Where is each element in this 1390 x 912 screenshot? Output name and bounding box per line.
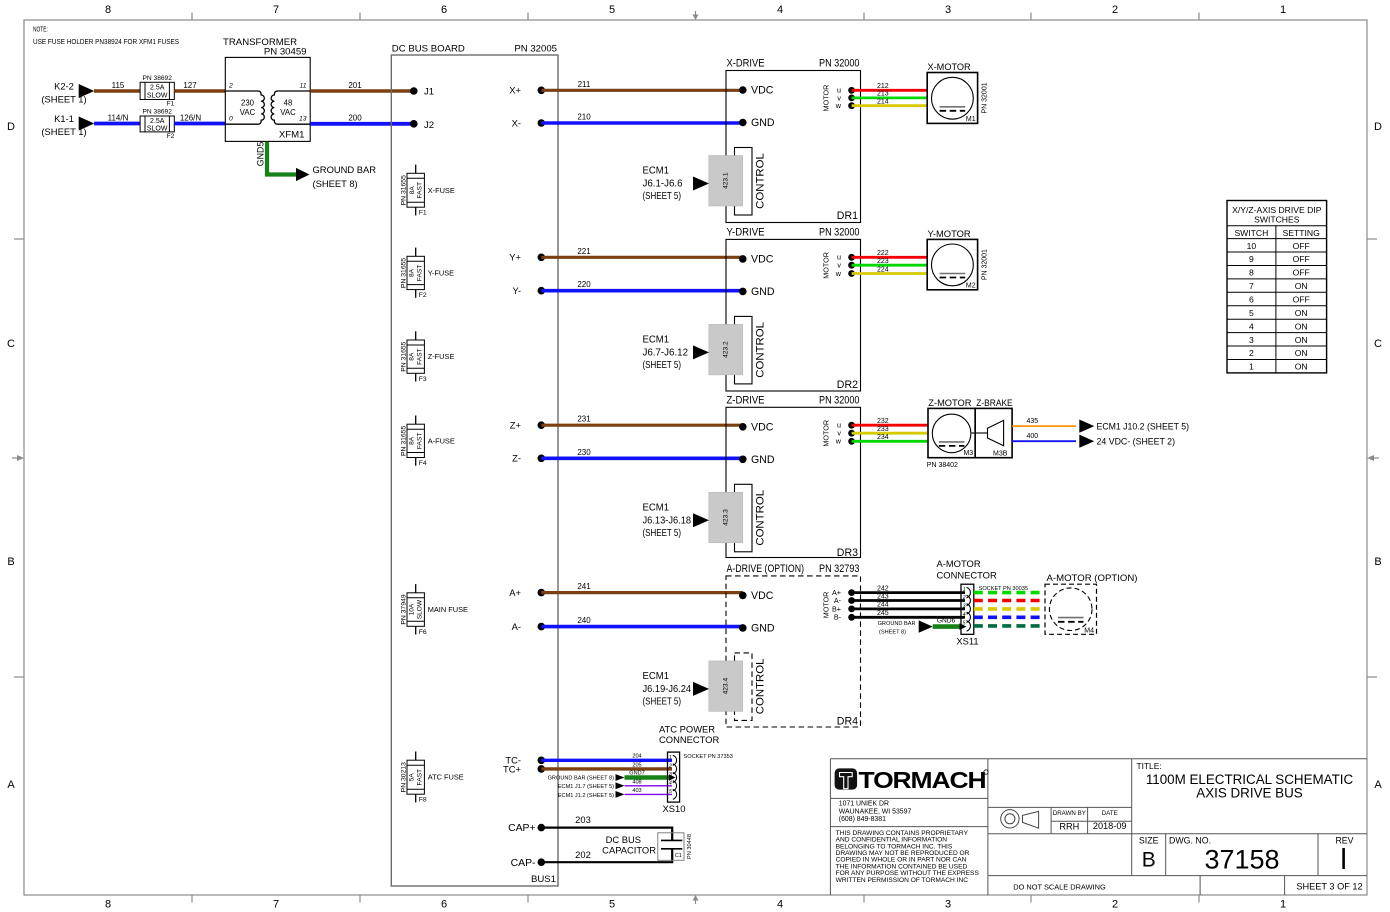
svg-text:PN 30459: PN 30459 (264, 47, 307, 58)
wire w4 dashed (974, 615, 1045, 619)
wire 243 (852, 599, 965, 602)
svg-text:w: w (835, 437, 842, 446)
svg-text:9: 9 (1249, 254, 1254, 264)
ECM1 control reference (643, 166, 683, 203)
svg-text:A+: A+ (509, 587, 521, 598)
svg-text:ECM1: ECM1 (643, 334, 670, 345)
svg-text:5: 5 (609, 4, 615, 16)
wire 230 (541, 456, 743, 460)
svg-text:2: 2 (668, 764, 672, 770)
svg-text:2018-09: 2018-09 (1093, 821, 1127, 831)
svg-text:VAC: VAC (280, 108, 296, 117)
svg-text:(SHEET 8): (SHEET 8) (879, 630, 906, 636)
svg-text:1: 1 (1280, 899, 1286, 911)
pin 4 (967, 612, 971, 622)
svg-text:D: D (7, 121, 15, 133)
svg-text:XS11: XS11 (956, 636, 978, 647)
svg-text:234: 234 (877, 434, 889, 441)
X/Y/Z-AXIS DRIVE DIP SWITCHES table (1227, 201, 1327, 373)
wire 232 (852, 424, 928, 427)
svg-text:BUS1: BUS1 (531, 874, 556, 885)
svg-text:F8: F8 (419, 797, 427, 804)
svg-text:CONTROL: CONTROL (755, 490, 767, 546)
svg-text:6: 6 (441, 4, 447, 16)
wire 114/N (94, 122, 140, 126)
svg-text:7: 7 (273, 899, 279, 911)
svg-text:5: 5 (669, 789, 672, 795)
svg-text:ON: ON (1295, 335, 1308, 345)
svg-text:CONTROL: CONTROL (755, 153, 767, 209)
pin GND (739, 624, 747, 632)
fuse F2 Y-FUSE 8A (400, 248, 454, 300)
svg-text:J6.13-J6.18: J6.13-J6.18 (643, 515, 692, 526)
pin 1 (967, 587, 971, 597)
wire w1 dashed (974, 591, 1045, 595)
svg-text:GND: GND (751, 454, 775, 466)
brake M3B (Z-BRAKE) (972, 398, 1013, 458)
svg-text:FAST: FAST (417, 433, 424, 450)
svg-text:4: 4 (777, 899, 783, 911)
svg-text:DATE: DATE (1102, 810, 1118, 817)
svg-text:C1: C1 (675, 853, 682, 859)
wire 205 (541, 767, 672, 770)
svg-text:ECM1 J1.7 (SHEET 5): ECM1 J1.7 (SHEET 5) (558, 784, 614, 790)
wire 245 (852, 616, 965, 619)
svg-text:Z-: Z- (512, 453, 521, 464)
svg-text:M1: M1 (966, 116, 976, 123)
svg-text:205: 205 (632, 762, 641, 768)
svg-text:MOTOR: MOTOR (821, 592, 830, 619)
drive DR3 : Z-DRIVE PN 32000 (643, 394, 861, 559)
wire 221 (541, 256, 743, 259)
svg-text:NOTE:: NOTE: (33, 25, 48, 34)
pin 2 (967, 595, 971, 605)
svg-text:223: 223 (877, 258, 889, 265)
svg-text:GND: GND (751, 117, 775, 129)
svg-text:SIZE: SIZE (1139, 836, 1159, 846)
svg-text:10: 10 (1247, 241, 1257, 251)
svg-text:WRITTEN PERMISSION OF TORMACH: WRITTEN PERMISSION OF TORMACH INC (836, 877, 969, 884)
control header (735, 148, 753, 216)
wire w5 dashed (974, 624, 1045, 628)
svg-text:B: B (1142, 849, 1156, 872)
wire 244 (852, 608, 965, 611)
pin 1 (673, 755, 677, 765)
pin GND (739, 119, 747, 127)
drive DR2 : Y-DRIVE PN 32000 (643, 226, 861, 391)
connector 423 gray block (709, 492, 743, 543)
projection symbol (1001, 810, 1039, 829)
svg-text:210: 210 (577, 113, 591, 122)
fuse F1 X-FUSE 8A (400, 165, 455, 217)
svg-text:F6: F6 (419, 629, 427, 636)
svg-text:VAC: VAC (240, 108, 256, 117)
svg-text:220: 220 (577, 280, 591, 289)
svg-text:1: 1 (1280, 4, 1286, 16)
svg-text:242: 242 (877, 585, 889, 592)
svg-text:423.1: 423.1 (722, 172, 729, 189)
wire w2 dashed (974, 599, 1045, 603)
svg-text:4: 4 (1249, 321, 1254, 331)
primary winding 230VAC (225, 91, 264, 124)
svg-text:PN 38402: PN 38402 (927, 462, 958, 469)
svg-text:DR3: DR3 (837, 547, 858, 559)
wire GND5 (green) (267, 142, 297, 175)
Tormach logo (835, 767, 989, 793)
node J2 (410, 120, 418, 128)
svg-text:X-MOTOR: X-MOTOR (928, 62, 971, 73)
svg-text:222: 222 (877, 250, 889, 257)
ECM1 control reference (643, 334, 689, 371)
pin GND (739, 288, 747, 296)
svg-text:PN 32005: PN 32005 (514, 44, 557, 55)
svg-text:232: 232 (877, 418, 889, 425)
wire 204 (541, 759, 672, 762)
svg-text:ON: ON (1295, 362, 1308, 372)
svg-text:230: 230 (577, 448, 591, 457)
wire 220 (541, 289, 743, 293)
svg-text:SLOW: SLOW (147, 125, 168, 132)
fuse F4 A-FUSE 8A (400, 416, 455, 468)
svg-text:(608) 849-8381: (608) 849-8381 (839, 816, 886, 823)
svg-text:w: w (835, 269, 842, 278)
svg-text:DR2: DR2 (837, 379, 858, 391)
svg-text:J6.19-J6.24: J6.19-J6.24 (643, 684, 692, 695)
svg-text:A-DRIVE (OPTION): A-DRIVE (OPTION) (727, 563, 805, 575)
svg-text:7: 7 (273, 4, 279, 16)
svg-text:K2-2: K2-2 (54, 81, 74, 92)
svg-text:MAIN FUSE: MAIN FUSE (428, 605, 468, 614)
secondary winding 48VAC (271, 91, 310, 124)
svg-text:2: 2 (1112, 4, 1118, 16)
svg-text:212: 212 (877, 83, 889, 90)
svg-text:MOTOR: MOTOR (821, 420, 830, 447)
svg-text:w: w (835, 101, 842, 110)
connector 423 gray block (709, 324, 743, 375)
svg-text:408: 408 (632, 779, 641, 785)
svg-text:SETTING: SETTING (1283, 228, 1321, 238)
svg-text:PN 37949: PN 37949 (400, 594, 407, 624)
svg-text:J2: J2 (424, 120, 434, 131)
svg-text:B-: B- (834, 613, 842, 622)
svg-text:8A: 8A (409, 436, 416, 445)
svg-text:PN 32000: PN 32000 (819, 58, 860, 70)
svg-text:211: 211 (578, 80, 591, 89)
svg-text:X/Y/Z-AXIS DRIVE DIP: X/Y/Z-AXIS DRIVE DIP (1232, 205, 1322, 215)
svg-text:ON: ON (1295, 321, 1308, 331)
pin 4 (673, 781, 677, 791)
svg-text:DR1: DR1 (837, 210, 858, 222)
wire GND6 (green) (933, 624, 960, 629)
svg-text:37158: 37158 (1204, 845, 1279, 875)
svg-text:2: 2 (1249, 348, 1254, 358)
ground bar reference GND6 (878, 621, 916, 636)
svg-text:AXIS DRIVE BUS: AXIS DRIVE BUS (1196, 786, 1302, 801)
pin VDC (739, 423, 747, 431)
svg-text:RRH: RRH (1059, 822, 1079, 832)
svg-text:3: 3 (669, 772, 672, 778)
svg-text:D: D (1374, 121, 1382, 133)
svg-text:ECM1 J10.2 (SHEET 5): ECM1 J10.2 (SHEET 5) (1097, 421, 1190, 432)
ground bar arrow (sheet 8) (296, 168, 310, 181)
wire 201 (310, 89, 414, 92)
svg-text:TORMACH: TORMACH (859, 767, 986, 793)
svg-text:FAST: FAST (417, 265, 424, 282)
wire 408 (625, 785, 673, 787)
svg-text:B: B (1374, 556, 1381, 568)
svg-text:214: 214 (877, 99, 889, 106)
pin 5 (673, 789, 677, 799)
svg-text:PN 31655: PN 31655 (400, 426, 407, 456)
svg-text:TC+: TC+ (503, 763, 521, 774)
motor M1 (927, 62, 988, 123)
svg-text:PN 32001: PN 32001 (982, 82, 989, 113)
svg-text:5: 5 (963, 620, 966, 626)
svg-text:VDC: VDC (751, 85, 774, 97)
svg-text:OFF: OFF (1293, 254, 1310, 264)
svg-text:XS10: XS10 (663, 803, 686, 814)
svg-text:REV: REV (1335, 836, 1353, 846)
svg-text:M3: M3 (963, 450, 973, 457)
svg-text:A: A (7, 779, 15, 791)
wire 241 (541, 591, 743, 594)
drive DR1 : X-DRIVE PN 32000 (643, 58, 861, 223)
svg-text:241: 241 (577, 582, 591, 591)
connector 423 gray block (709, 661, 743, 712)
svg-text:127: 127 (183, 81, 197, 90)
svg-text:233: 233 (877, 426, 889, 433)
svg-text:SWITCH: SWITCH (1234, 228, 1268, 238)
svg-text:423.2: 423.2 (722, 341, 729, 358)
wire 115 (94, 89, 140, 92)
svg-text:1: 1 (669, 755, 672, 761)
wire 435 (1012, 425, 1076, 427)
wire 214 (852, 104, 928, 107)
svg-text:(SHEET 8): (SHEET 8) (313, 178, 358, 189)
svg-text:2.5A: 2.5A (150, 118, 165, 125)
svg-text:114/N: 114/N (108, 114, 129, 123)
svg-text:F2: F2 (419, 292, 427, 299)
svg-text:J1: J1 (424, 86, 434, 97)
control header (735, 653, 753, 721)
svg-text:400: 400 (1027, 433, 1039, 440)
svg-text:1071 UNIEK DR: 1071 UNIEK DR (839, 801, 889, 808)
svg-text:24 VDC- (SHEET 2): 24 VDC- (SHEET 2) (1097, 436, 1176, 447)
svg-text:ON: ON (1295, 281, 1308, 291)
svg-text:OFF: OFF (1293, 241, 1310, 251)
wire w3 dashed (974, 607, 1045, 611)
svg-text:SOCKET PN 37353: SOCKET PN 37353 (684, 754, 733, 760)
svg-text:CAPACITOR: CAPACITOR (602, 845, 656, 856)
wire 222 (852, 256, 928, 259)
address (839, 801, 912, 823)
svg-text:6: 6 (441, 899, 447, 911)
wire 223 (852, 264, 928, 267)
drive DR4 : A-DRIVE (OPTION) PN 32793 (643, 563, 861, 728)
svg-text:5A: 5A (409, 773, 416, 782)
svg-text:CAP+: CAP+ (508, 823, 535, 834)
svg-text:Y-MOTOR: Y-MOTOR (928, 229, 971, 240)
svg-text:202: 202 (575, 849, 591, 860)
svg-text:200: 200 (348, 114, 362, 123)
svg-text:PN 32001: PN 32001 (982, 249, 989, 280)
svg-text:CONTROL: CONTROL (755, 659, 767, 715)
svg-text:6: 6 (1249, 295, 1254, 305)
svg-text:X-FUSE: X-FUSE (428, 186, 455, 195)
pin VDC (739, 255, 747, 263)
svg-text:230: 230 (241, 99, 255, 108)
svg-text:A-: A- (512, 621, 521, 632)
pin VDC (739, 592, 747, 600)
svg-text:ECM1: ECM1 (643, 502, 670, 513)
svg-text:Y+: Y+ (509, 252, 521, 263)
svg-text:(SHEET 5): (SHEET 5) (643, 696, 682, 707)
fuse F1 (2.5A slow) (140, 82, 174, 99)
pin 3 (967, 604, 971, 614)
wire 240 (541, 625, 743, 629)
svg-text:M4: M4 (1084, 627, 1094, 634)
svg-text:GND: GND (751, 622, 775, 634)
svg-text:Z+: Z+ (510, 420, 522, 431)
svg-text:WAUNAKEE, WI 53597: WAUNAKEE, WI 53597 (839, 808, 912, 815)
svg-text:DRAWN BY: DRAWN BY (1053, 810, 1086, 817)
svg-text:435: 435 (1027, 418, 1039, 425)
svg-text:Y-DRIVE: Y-DRIVE (727, 226, 765, 238)
svg-text:PN 31655: PN 31655 (400, 341, 407, 371)
svg-text:CONNECTOR: CONNECTOR (659, 734, 719, 745)
svg-text:213: 213 (877, 91, 889, 98)
connector 423 gray block (709, 156, 743, 207)
svg-text:2: 2 (962, 595, 966, 601)
svg-text:CONNECTOR: CONNECTOR (937, 570, 997, 581)
svg-text:243: 243 (877, 593, 889, 600)
svg-text:245: 245 (877, 610, 889, 617)
ECM1 control reference (643, 671, 692, 708)
svg-text:FAST: FAST (417, 182, 424, 199)
svg-text:ECM1: ECM1 (643, 166, 670, 177)
wire 203 (541, 828, 672, 840)
svg-text:221: 221 (577, 247, 591, 256)
svg-text:240: 240 (577, 616, 591, 625)
svg-text:ECM1 J1.2 (SHEET 5): ECM1 J1.2 (SHEET 5) (558, 793, 614, 799)
svg-text:PN 32000: PN 32000 (819, 394, 860, 406)
fuse F8 ATC FUSE 5A (400, 752, 463, 804)
svg-text:VDC: VDC (751, 590, 774, 602)
wire 242 (852, 591, 965, 594)
wire 210 (541, 121, 743, 125)
svg-text:ATC FUSE: ATC FUSE (428, 773, 464, 782)
svg-text:X-DRIVE: X-DRIVE (727, 58, 765, 70)
svg-text:423.4: 423.4 (722, 678, 729, 695)
ECM1 control reference (643, 502, 692, 539)
svg-text:Z-FUSE: Z-FUSE (428, 352, 455, 361)
svg-text:Z-MOTOR: Z-MOTOR (928, 398, 971, 409)
svg-text:XFM1: XFM1 (279, 130, 305, 141)
connector XS10 (663, 752, 733, 814)
connector XS11 (937, 558, 1028, 647)
svg-text:DR4: DR4 (837, 715, 858, 727)
wire GND7 (green) (625, 775, 671, 780)
wire 211 (541, 89, 743, 92)
svg-text:J6.7-J6.12: J6.7-J6.12 (643, 347, 689, 358)
svg-text:1: 1 (963, 587, 966, 593)
svg-text:(SHEET 5): (SHEET 5) (643, 191, 682, 202)
svg-text:F1: F1 (167, 101, 175, 108)
svg-text:X-: X- (512, 117, 521, 128)
svg-text:ON: ON (1295, 348, 1308, 358)
svg-text:F4: F4 (419, 460, 427, 467)
svg-text:F3: F3 (419, 376, 427, 383)
svg-text:2: 2 (1112, 899, 1118, 911)
wire 233 (852, 432, 928, 435)
svg-text:Z-DRIVE: Z-DRIVE (727, 394, 765, 406)
svg-text:VDC: VDC (751, 253, 774, 265)
svg-text:5: 5 (1249, 308, 1254, 318)
svg-text:DO NOT SCALE DRAWING: DO NOT SCALE DRAWING (1013, 883, 1106, 892)
svg-text:11: 11 (299, 83, 306, 90)
pin 5 (967, 621, 971, 631)
svg-text:PN 32793: PN 32793 (819, 563, 860, 575)
svg-text:3: 3 (945, 899, 951, 911)
svg-text:126/N: 126/N (180, 114, 202, 123)
svg-text:115: 115 (112, 81, 125, 90)
svg-text:SWITCHES: SWITCHES (1254, 214, 1300, 224)
svg-text:GROUND BAR: GROUND BAR (878, 621, 916, 627)
svg-text:8: 8 (1249, 268, 1254, 278)
svg-text:204: 204 (632, 754, 641, 760)
svg-text:GND6: GND6 (937, 618, 956, 625)
note text (33, 25, 179, 47)
wire 213 (852, 97, 928, 100)
title block (830, 759, 1367, 895)
svg-text:PN 32000: PN 32000 (819, 226, 860, 238)
svg-text:GND5: GND5 (255, 142, 265, 167)
svg-text:13: 13 (299, 116, 307, 123)
svg-text:B: B (7, 556, 14, 568)
DC BUS BOARD PN 32005 (391, 55, 558, 886)
svg-text:GND7: GND7 (629, 771, 645, 777)
svg-text:OFF: OFF (1293, 295, 1310, 305)
svg-text:A: A (1374, 779, 1382, 791)
svg-text:Z-BRAKE: Z-BRAKE (976, 398, 1013, 409)
svg-text:A-MOTOR (OPTION): A-MOTOR (OPTION) (1047, 573, 1138, 584)
svg-text:3: 3 (945, 4, 951, 16)
svg-text:CAP-: CAP- (511, 858, 536, 869)
svg-text:ON: ON (1295, 308, 1308, 318)
svg-text:GROUND BAR: GROUND BAR (313, 164, 377, 175)
svg-text:3: 3 (963, 603, 966, 609)
node K1-1 arrow (79, 117, 95, 131)
svg-text:4: 4 (777, 4, 783, 16)
svg-text:1: 1 (1249, 362, 1254, 372)
fuse F2 (2.5A slow) (140, 116, 174, 132)
svg-text:C: C (1374, 338, 1382, 350)
wire 126/N (174, 122, 225, 126)
svg-text:8: 8 (105, 899, 111, 911)
svg-text:Y-: Y- (512, 285, 521, 296)
motor M4 A-MOTOR (OPTION) (1045, 573, 1137, 634)
svg-text:224: 224 (877, 266, 889, 273)
svg-text:8A: 8A (409, 268, 416, 277)
svg-text:M2: M2 (966, 282, 976, 289)
svg-text:244: 244 (877, 602, 889, 609)
control header (735, 484, 753, 552)
svg-text:F2: F2 (167, 133, 175, 140)
svg-text:A-MOTOR: A-MOTOR (937, 558, 981, 569)
svg-text:8: 8 (105, 4, 111, 16)
motor M3 (928, 398, 975, 458)
svg-text:PN 38692: PN 38692 (143, 109, 173, 116)
